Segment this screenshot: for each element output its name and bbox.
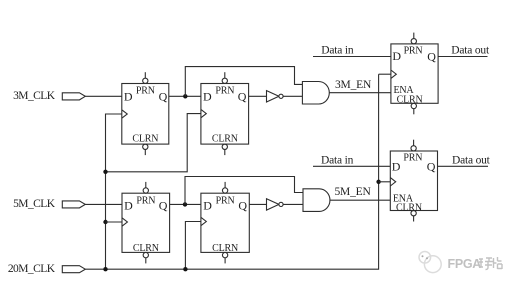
node junction 20M rail at x105 [103,267,107,271]
flip-flop FF5 [391,33,438,115]
svg-text:D: D [124,89,133,103]
input connector 20M_CLK [62,266,85,273]
svg-text:FPGA: FPGA [448,257,482,271]
svg-text:Data in: Data in [321,154,354,166]
svg-text:Q: Q [159,89,168,103]
svg-text:3M_EN: 3M_EN [335,79,372,91]
wire FF5 clock to vertical rail [379,73,391,75]
input connector 5M_CLK [62,201,85,208]
wire Data in to FF5 D [313,56,391,58]
watermark glyph yi (CJK approximation) [479,258,493,270]
svg-text:PRN: PRN [216,195,235,206]
watermark glyph zhan (CJK approximation) [494,257,503,269]
flip-flop FF2 [201,72,249,155]
wire FF1 clock from rail [106,114,122,269]
wire FF5 Q to Data out [438,56,487,58]
svg-text:D: D [392,49,401,63]
wire FF2 clock down to rail branch [106,114,201,172]
svg-text:Q: Q [427,49,436,63]
watermark logo cat circles [419,251,441,272]
svg-text:5M_CLK: 5M_CLK [13,198,56,210]
wire FF3 clock from rail [106,221,123,223]
wire inverter U1 to AND1 [283,95,302,97]
wire feedback row1 from FF1 Q node up and over to AND1 top input [185,67,302,97]
node junction clock rail row1 [103,170,107,174]
svg-text:Data in: Data in [321,45,354,57]
watermark logo dots [422,255,429,259]
svg-text:CLRN: CLRN [212,134,238,145]
input connector 3M_CLK [62,93,85,100]
node junction FF3 Q [183,202,187,206]
wire FF6 clock from vertical rail [379,181,391,183]
svg-text:Q: Q [427,159,436,173]
svg-text:Q: Q [159,199,168,213]
wire 5M_CLK to FF3 D [85,203,122,205]
AND gate AND1 [302,82,329,105]
wire FF1 Q to FF2 D [169,95,201,97]
svg-text:PRN: PRN [136,86,155,97]
flip-flop FF4 [201,182,249,264]
wire AND1 output 3M_EN to FF5 ENA [329,92,391,94]
svg-text:5M_EN: 5M_EN [335,186,372,198]
svg-text:CLRN: CLRN [212,243,238,254]
svg-text:Q: Q [238,199,247,213]
node junction 20M rail at x185 [183,267,187,271]
inverter U2 [267,199,284,210]
wire 20M_CLK horizontal rail [85,74,378,269]
wire 3M_CLK to FF1 D [85,95,122,97]
svg-text:CLRN: CLRN [133,243,159,254]
node junction FF1 Q [183,94,187,98]
svg-text:3M_CLK: 3M_CLK [13,90,56,102]
wire inverter U2 to AND2 [283,203,303,205]
svg-text:PRN: PRN [404,45,423,56]
svg-text:PRN: PRN [136,195,155,206]
flip-flop FF6 [390,140,437,222]
svg-text:D: D [203,89,212,103]
svg-text:CLRN: CLRN [132,134,158,145]
svg-text:CLRN: CLRN [397,95,423,106]
svg-text:D: D [124,199,133,213]
flip-flop FF1 [122,72,169,155]
wire FF2 Q to inverter U1 [249,95,267,97]
svg-text:PRN: PRN [215,86,234,97]
wire feedback row2 from FF3 Q node up and over to AND2 top input [185,177,303,205]
AND gate AND2 [303,189,330,212]
svg-text:20M_CLK: 20M_CLK [8,263,56,275]
node junction FF3 clock tap [103,220,107,224]
svg-text:CLRN: CLRN [396,202,422,213]
wire AND2 output 5M_EN to FF6 ENA [330,199,390,201]
svg-text:PRN: PRN [403,152,422,163]
inverter U1 [267,91,284,102]
flip-flop FF3 [122,182,170,264]
svg-text:D: D [392,159,401,173]
svg-text:Q: Q [238,89,247,103]
wire FF4 Q to inverter U2 [249,203,266,205]
node junction FF6 clock tap [376,180,380,184]
svg-text:Data out: Data out [451,45,490,57]
wire Data in to FF6 D [313,165,390,167]
wire FF4 clock down to 20M rail [185,222,201,270]
svg-text:Data out: Data out [452,154,491,166]
svg-text:D: D [203,199,212,213]
wire FF6 Q to Data out [438,165,489,167]
wire FF3 Q to FF4 D [170,203,201,205]
